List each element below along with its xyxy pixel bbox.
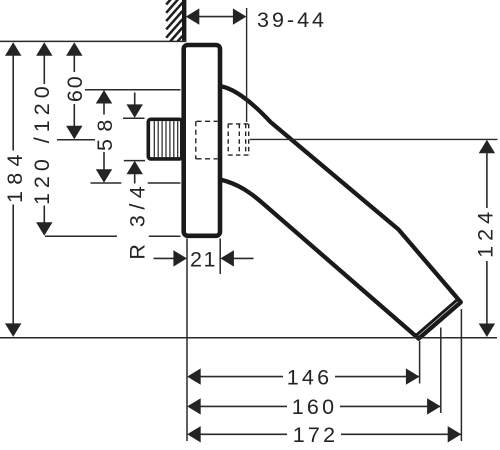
dimension 120/120 line [36,42,52,235]
dimension 58 bottom extension line [91,182,181,184]
dimension 172 line [187,426,461,442]
dimension 21 line [154,250,254,266]
spout outlet inner face line [416,300,458,336]
spout body [222,87,461,339]
dimension 58 line [96,90,112,183]
svg-text:120 /120: 120 /120 [30,81,54,205]
dimension 60 line [66,42,82,139]
svg-text:160: 160 [292,395,337,419]
hidden thread inside plate (dashed) [196,121,218,159]
top reference line [0,40,186,42]
outlet middle extension line [440,328,442,414]
svg-text:146: 146 [287,365,332,389]
escutcheon plate [184,45,220,236]
dimension 39-44 line [186,8,247,24]
dimension 58 top extension line [85,89,181,91]
svg-text:60: 60 [63,74,87,102]
thread dimension R3/4 stem and arrows [127,93,143,184]
svg-text:39-44: 39-44 [257,8,327,32]
dimension 124 line [479,140,495,337]
svg-text:58: 58 [93,112,117,151]
hidden thread inside spout (dashed) [228,124,249,155]
spout outline [222,87,461,339]
thread nipple hatch lines [154,121,177,157]
wall line [182,0,186,41]
plate front extension line [219,239,221,275]
plate bottom extension line [45,235,181,237]
svg-text:172: 172 [293,423,338,447]
thread dimension top tick [123,117,145,119]
wall face extension line [186,239,188,442]
wall hatching [166,0,182,63]
dimension 60 bottom tick [57,139,95,141]
svg-text:124: 124 [473,207,497,258]
outlet top extension line [460,309,462,441]
thread dimension bottom tick [124,160,145,162]
svg-text:21: 21 [190,247,217,271]
dimension 184 line [5,42,21,337]
thread nipple visible [148,119,182,159]
dimension 39-44 extension line [246,8,248,122]
centerline [250,138,498,140]
spout tip extension line [419,341,421,384]
svg-text:R 3/4: R 3/4 [126,181,150,260]
dimension 160 line [187,398,440,414]
svg-text:184: 184 [3,148,27,203]
dimension 146 line [187,368,419,384]
bottom reference line [0,337,497,339]
